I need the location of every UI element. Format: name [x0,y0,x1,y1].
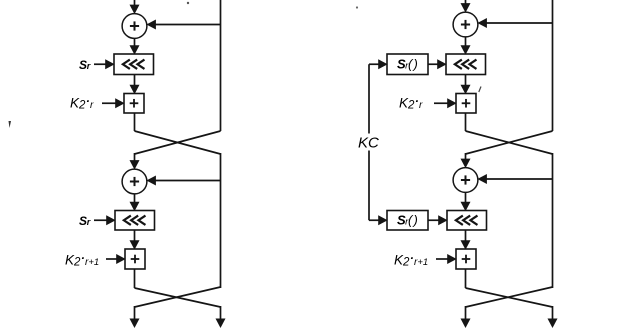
speck (scan artifact) [187,2,189,4]
wire [465,113,467,131]
wire [134,194,136,203]
box modular add +, round 1 [124,94,144,114]
wire (swap cross A to B) [466,131,553,154]
wire [134,38,136,46]
wire [486,22,553,24]
wire [429,219,440,221]
wire [134,75,136,86]
wire [220,0,222,131]
node A (XOR circle, round 2) [122,169,147,194]
wire [220,153,222,288]
wire [436,258,448,260]
node A (XOR circle, round 1) [453,12,478,37]
wire [155,180,221,182]
box rotate-left <<<, round 2 [447,211,487,231]
label KC [357,134,382,151]
box rotate-left <<<, round 1 [114,54,154,75]
wire [552,306,554,320]
wire [465,192,467,202]
wire (output swap A to B) [466,288,553,307]
box modular add +, round 1 [456,94,476,114]
wire (swap cross B to A) [466,131,553,154]
prime mark (scan artifact) [479,87,481,93]
box rotate-left <<<, round 2 [115,211,155,231]
wire [94,219,107,221]
box s_r() key-dependent rotation, round 1 [387,54,428,75]
wire [434,102,448,104]
wire (output swap B to A) [466,287,553,307]
svg-text:Sr( ): Sr( ) [397,57,418,72]
box modular add +, round 2 [125,249,145,269]
wire [552,0,554,131]
box rotate-left <<<, round 1 [446,54,486,75]
wire [134,230,136,241]
wire [429,63,439,65]
svg-text:Sr: Sr [79,58,91,72]
speck (scan artifact) [9,121,12,128]
wire (output swap B to A) [135,287,221,307]
wire [155,24,221,26]
wire [134,0,136,6]
wire [106,258,117,260]
wire [465,269,467,288]
wire [465,75,467,86]
node A (XOR circle, round 2) [453,168,478,193]
wire [134,269,136,288]
wire [220,306,222,320]
svg-text:Sr: Sr [79,214,91,228]
svg-text:Sr( ): Sr( ) [397,213,418,228]
wire [552,153,554,288]
box s_r() key-dependent rotation, round 2 [387,211,428,231]
wire [134,113,136,131]
wire [134,306,136,320]
box modular add +, round 2 [456,249,476,269]
wire [465,37,467,46]
wire [94,63,106,65]
node A (XOR circle, round 1) [122,14,147,39]
wire [134,153,136,161]
wire [486,178,553,180]
wire (output swap A to B) [135,288,221,307]
net KC (key-dependent constants feed) [368,64,370,220]
wire [465,153,467,160]
wire [102,102,116,104]
wire [465,230,467,241]
svg-text:KC: KC [358,135,379,152]
wire (swap cross A to B) [135,131,221,154]
wire [465,0,467,4]
wire (swap cross B to A) [135,131,221,154]
speck (scan artifact) [356,6,358,8]
wire [465,306,467,320]
